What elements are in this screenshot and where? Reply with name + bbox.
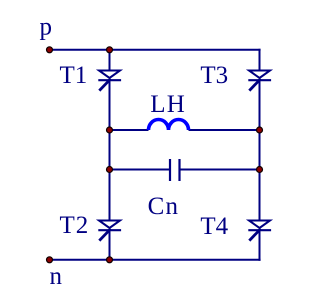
- thyristor T2: [98, 221, 121, 241]
- node C right inductor row: [257, 127, 263, 133]
- svg-text:LH: LH: [150, 91, 186, 118]
- wire bottom horizontal n to right column: [50, 259, 261, 261]
- wire left column node B to T2 anode: [109, 170, 111, 221]
- wire right column T4 cathode to bottom: [259, 230, 261, 261]
- svg-text:T4: T4: [200, 213, 228, 240]
- svg-text:T3: T3: [200, 62, 228, 89]
- svg-text:T2: T2: [60, 212, 90, 239]
- node A left inductor row: [107, 127, 113, 133]
- node bottom junction: [107, 257, 113, 263]
- wire middle inductor row right segment: [189, 129, 260, 131]
- wire capacitor row right segment: [180, 169, 260, 171]
- wire right column top segment: [259, 49, 261, 70]
- node D right capacitor row: [257, 167, 263, 173]
- wire left column T1 anode: [109, 50, 111, 70]
- node n terminal: [47, 257, 53, 263]
- svg-text:p: p: [40, 13, 53, 40]
- wire top horizontal p to right column: [50, 49, 261, 51]
- capacitor Cn: [170, 159, 180, 181]
- wire left column T1 cathode to node A: [109, 80, 111, 130]
- wire left column node A to node B: [109, 130, 111, 170]
- thyristor T4: [248, 221, 271, 241]
- wire left column T2 cathode to bottom: [109, 230, 111, 260]
- wire right column node C to node D: [259, 130, 261, 170]
- inductor LH: [149, 120, 189, 130]
- wire right column T3 cathode to node C: [259, 80, 261, 130]
- svg-text:n: n: [50, 263, 63, 290]
- wire right column node D to T4 anode: [259, 170, 261, 221]
- svg-text:Cn: Cn: [148, 193, 180, 220]
- thyristor T1: [98, 71, 121, 91]
- wire capacitor row left segment: [110, 169, 171, 171]
- node top junction: [107, 47, 113, 53]
- node B left capacitor row: [107, 167, 113, 173]
- node p terminal: [47, 47, 53, 53]
- wire middle inductor row left segment: [110, 129, 149, 131]
- thyristor T3: [248, 71, 271, 91]
- svg-text:T1: T1: [60, 62, 88, 89]
